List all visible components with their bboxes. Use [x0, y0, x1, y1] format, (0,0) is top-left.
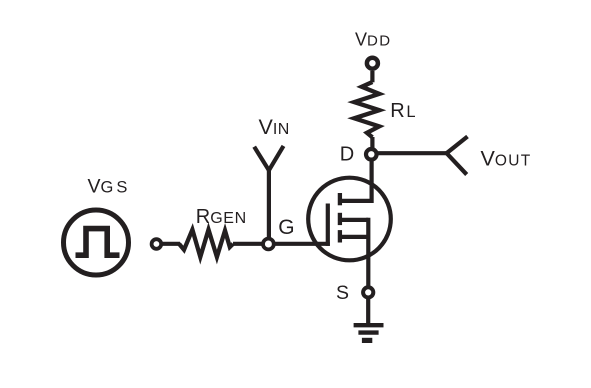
resistor RL	[354, 82, 379, 137]
MOSFET drain lead	[340, 199, 372, 203]
resistor RGEN	[179, 230, 233, 257]
svg-text:S: S	[336, 282, 349, 304]
pulse source VGS	[64, 210, 129, 275]
wire resistor to gate	[233, 242, 330, 246]
svg-text:VGS: VGS	[88, 176, 131, 198]
svg-text:G: G	[278, 216, 294, 239]
wire S to ground	[366, 299, 370, 325]
probe VOUT	[447, 137, 468, 175]
probe VIN	[254, 146, 283, 244]
MOSFET source lead	[340, 235, 368, 239]
MOSFET Q1	[308, 178, 391, 261]
terminal input	[152, 239, 162, 249]
terminal VDD	[367, 58, 378, 69]
wire VDD to resistor RL	[370, 71, 374, 83]
wire RL to node D	[370, 137, 374, 149]
wire source to terminal S	[366, 218, 370, 286]
svg-text:VOUT: VOUT	[481, 147, 532, 171]
wire node D to MOSFET drain	[370, 158, 374, 203]
MOSFET channel dash drain	[338, 193, 342, 205]
MOSFET body circle	[308, 178, 391, 261]
wire input terminal to resistor	[161, 242, 180, 246]
svg-text:VDD: VDD	[355, 30, 391, 50]
svg-text:D: D	[340, 144, 354, 166]
node D	[366, 149, 377, 160]
terminal S	[363, 287, 373, 297]
MOSFET channel dash body	[338, 213, 342, 225]
wire node D to VOUT fork	[377, 151, 447, 155]
ground	[354, 325, 384, 340]
node G	[263, 239, 274, 250]
svg-text:RGEN: RGEN	[196, 206, 247, 228]
svg-text:RL: RL	[390, 100, 415, 122]
svg-text:VIN: VIN	[259, 115, 290, 139]
MOSFET channel dash source	[338, 230, 342, 242]
MOSFET gate plate	[326, 204, 330, 246]
MOSFET body lead	[340, 218, 368, 222]
